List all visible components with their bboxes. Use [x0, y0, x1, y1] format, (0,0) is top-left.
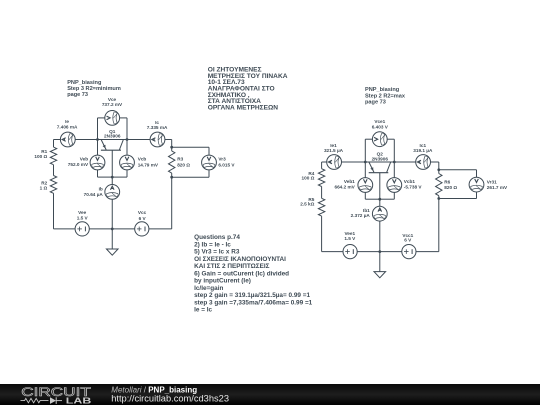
voltmeter Vce	[105, 111, 120, 126]
label Veb1	[334, 179, 355, 190]
svg-text:2) Ib = Ie - Ic: 2) Ib = Ie - Ic	[194, 241, 231, 248]
svg-text:step 2 gain = 319.1µa/321.5µa=: step 2 gain = 319.1µa/321.5µa= 0.99 =1	[194, 292, 310, 299]
ammeter Ie	[60, 132, 75, 147]
label Q1 2N3906	[104, 129, 121, 139]
wire Veb1 to base bus	[365, 198, 380, 200]
svg-text:6 V: 6 V	[139, 216, 147, 221]
wire Vcb1 to base bus	[380, 198, 395, 200]
svg-text:ΚΑΙ ΣΤΙΣ 2 ΠΕΡΙΠΤΩΣΕΙΣ: ΚΑΙ ΣΤΙΣ 2 ΠΕΡΙΠΤΩΣΕΙΣ	[194, 263, 270, 270]
wire Vcb bottom	[126, 170, 128, 177]
svg-text:2.372 µA: 2.372 µA	[351, 213, 371, 218]
node R6 top	[437, 168, 440, 171]
svg-text:Veb: Veb	[80, 156, 88, 161]
wire vr31 loop top	[439, 169, 477, 171]
label Vcb1	[404, 179, 423, 190]
wire vr31 loop bottom	[439, 198, 477, 200]
resistor R5	[318, 198, 324, 216]
wire vce1 loop right	[393, 139, 395, 162]
transistor Q1 2N3906	[101, 140, 124, 151]
svg-text:ΟΙ ΣΧΕΣΕΙΣ ΙΚΑΝΟΠΟΙΟΥΝΤΑΙ: ΟΙ ΣΧΕΣΕΙΣ ΙΚΑΝΟΠΟΙΟΥΝΤΑΙ	[194, 256, 286, 263]
svg-text:page 73: page 73	[67, 92, 88, 98]
wire bottom right segment	[149, 228, 172, 230]
label Veb	[68, 156, 89, 167]
wire R5 to bottom	[321, 216, 323, 252]
wire Vcb1 bottom	[393, 192, 395, 199]
svg-text:6) Gain = outCurent (Ic) divid: 6) Gain = outCurent (Ic) divided	[194, 270, 289, 277]
wire base lead right circuit	[379, 173, 381, 207]
node emitter junction right	[364, 161, 367, 164]
text header right circuit	[365, 87, 406, 106]
svg-text:6.403 V: 6.403 V	[372, 124, 389, 129]
wire corner down right	[438, 162, 440, 170]
wire bottom right segment right circuit	[416, 251, 439, 253]
node R6 bottom	[437, 197, 440, 200]
svg-text:5) Vr3 = Ic x R3: 5) Vr3 = Ic x R3	[194, 249, 240, 256]
wire vce1 loop top right	[387, 138, 394, 140]
ground left circuit	[106, 249, 118, 255]
svg-text:R6: R6	[444, 179, 450, 184]
svg-text:Ie1: Ie1	[330, 143, 337, 148]
voltage source Vcc	[135, 222, 149, 236]
svg-text:6 V: 6 V	[404, 238, 412, 243]
text note greek measurements	[208, 66, 288, 111]
logo diode arrow	[50, 397, 56, 404]
svg-text:Veb1: Veb1	[344, 179, 355, 184]
wire bottom to Vee	[54, 228, 75, 230]
wire bottom to Vee1	[322, 251, 343, 253]
label R4	[302, 171, 315, 181]
wire vr3 loop top	[172, 146, 209, 148]
wire vce1 loop top left	[365, 138, 372, 140]
svg-text:R3: R3	[177, 156, 183, 161]
ammeter Ib1	[372, 206, 387, 221]
svg-text:664.2 mV: 664.2 mV	[334, 185, 355, 190]
wire vce loop top right	[120, 117, 127, 119]
node ground junction right	[378, 250, 381, 253]
label Ib1	[351, 208, 371, 218]
node R3 bottom	[170, 176, 173, 179]
label R1	[34, 149, 47, 159]
label Vr31	[487, 179, 508, 190]
voltmeter Veb	[90, 155, 105, 170]
right circuit: PNP_biasing Step 2	[0, 0, 2, 2]
wire Ic to corner	[165, 139, 172, 141]
wire Veb bottom	[97, 170, 99, 177]
svg-text:Ic1: Ic1	[420, 143, 427, 148]
label Q2 2N3906	[372, 152, 389, 162]
wire vce loop right	[126, 118, 128, 140]
label R6	[444, 179, 457, 190]
wire vr31 to meter	[476, 170, 478, 177]
node collector junction	[126, 138, 129, 141]
wire Vcb to base bus	[112, 176, 127, 178]
voltmeter Vcb	[120, 155, 135, 170]
svg-text:1.5 V: 1.5 V	[77, 216, 89, 221]
ammeter Ie1	[327, 155, 342, 170]
wire base lead	[111, 150, 113, 184]
ammeter Ic1	[416, 155, 431, 170]
node base bus junction right	[378, 198, 381, 201]
ammeter Ib	[105, 185, 120, 200]
resistor R3	[169, 151, 175, 173]
svg-text:2N3906: 2N3906	[104, 134, 121, 139]
wire R3 top lead	[171, 147, 173, 151]
svg-text:321.5 µA: 321.5 µA	[324, 148, 344, 153]
node base bus junction	[111, 176, 114, 179]
label R3	[177, 156, 190, 167]
svg-text:Ie = Ic: Ie = Ic	[194, 307, 212, 314]
svg-text:752.0 mV: 752.0 mV	[68, 162, 89, 167]
wire left branch to Ie	[54, 139, 61, 141]
wire between Vee1 Vcc1	[357, 251, 401, 253]
label Ic1	[413, 143, 433, 153]
svg-text:820 Ω: 820 Ω	[444, 185, 457, 190]
voltmeter Veb1	[358, 178, 373, 193]
label Vce1	[372, 119, 389, 130]
node emitter junction	[96, 138, 99, 141]
svg-text:100 Ω: 100 Ω	[302, 176, 315, 181]
wire vr3 to meter	[208, 147, 210, 155]
voltmeter Vr31	[469, 177, 484, 192]
svg-text:LAB: LAB	[66, 395, 92, 405]
text questions block	[194, 234, 313, 313]
svg-text:2N3906: 2N3906	[372, 156, 389, 161]
resistor R4	[318, 169, 324, 187]
svg-text:14.79 mV: 14.79 mV	[138, 162, 159, 167]
label Vcc	[138, 210, 147, 221]
svg-text:PNP_biasing: PNP_biasing	[365, 87, 400, 93]
svg-text:100 Ω: 100 Ω	[34, 154, 47, 159]
wire vr31 meter bottom	[476, 192, 478, 199]
label Ie	[57, 119, 78, 130]
svg-text:http://circuitlab.com/cd3hs23: http://circuitlab.com/cd3hs23	[111, 394, 229, 404]
wire vce loop left	[97, 118, 99, 140]
wire R2 to bottom	[53, 193, 55, 229]
svg-text:2.5 kΩ: 2.5 kΩ	[300, 202, 314, 207]
label Vee1	[344, 231, 356, 241]
label Vcb	[138, 156, 159, 167]
resistor R1	[50, 147, 56, 165]
left circuit: PNP_biasing Step 3	[0, 0, 2, 2]
svg-text:Vr3: Vr3	[218, 156, 226, 161]
label Ib	[84, 186, 104, 197]
wire R6 branch to bottom	[438, 199, 440, 252]
wire vr3 meter bottom	[208, 170, 210, 177]
wire R6 bottom lead	[438, 196, 440, 199]
wire main horizontal right circuit	[342, 161, 416, 163]
label R2	[40, 180, 48, 190]
node R3 top	[170, 146, 173, 149]
svg-text:by inputCurent (Ie): by inputCurent (Ie)	[194, 278, 251, 285]
svg-text:Ib: Ib	[99, 186, 103, 191]
ground right circuit	[374, 272, 386, 278]
svg-text:Vcb1: Vcb1	[404, 179, 416, 184]
svg-text:Vcc: Vcc	[138, 210, 147, 215]
wire between R1 R2	[53, 165, 55, 176]
wire main horizontal emitter-collector	[75, 139, 150, 141]
svg-text:319.1 µA: 319.1 µA	[413, 148, 433, 153]
voltage source Vee	[75, 222, 89, 236]
wire between Vee Vcc	[90, 228, 135, 230]
svg-text:Ie: Ie	[65, 119, 69, 124]
svg-text:step 3 gain =7,335ma/7.406ma=: step 3 gain =7,335ma/7.406ma= 0.99 =1	[194, 299, 313, 306]
label Vce	[102, 97, 123, 107]
wire vr3 loop bottom	[172, 176, 209, 178]
wire Ic1 to corner	[431, 161, 439, 163]
wire to Vcb1	[393, 162, 395, 178]
svg-text:70.64 µA: 70.64 µA	[84, 192, 104, 197]
voltmeter Vr3	[202, 155, 217, 170]
svg-text:820 Ω: 820 Ω	[177, 162, 190, 167]
svg-text:Vcb: Vcb	[138, 156, 147, 161]
voltage source Vee1	[343, 245, 357, 259]
wire R3 bottom lead	[171, 173, 173, 177]
voltmeter Vcb1	[387, 178, 402, 193]
ammeter Ic	[150, 132, 165, 147]
wire left branch to Ie1	[322, 161, 327, 163]
svg-text:-5.738 V: -5.738 V	[404, 185, 423, 190]
label R5	[300, 197, 315, 207]
svg-text:1.5 V: 1.5 V	[344, 236, 356, 241]
wire left top vertical right circuit	[321, 162, 323, 169]
svg-text:6.015 V: 6.015 V	[218, 162, 235, 167]
label Vee	[77, 210, 89, 221]
wire Veb to base bus	[98, 176, 113, 178]
voltmeter Vce1	[372, 132, 387, 147]
svg-text:R2: R2	[41, 180, 47, 185]
text header left circuit	[67, 80, 121, 98]
svg-text:Questions p.74: Questions p.74	[194, 234, 240, 241]
svg-text:ΟΡΓΑΝΑ ΜΕΤΡΗΣΕΩΝ: ΟΡΓΑΝΑ ΜΕΤΡΗΣΕΩΝ	[208, 105, 279, 112]
footer bar	[0, 384, 540, 405]
svg-text:Ic/Ie=gain: Ic/Ie=gain	[194, 285, 223, 292]
wire to Veb	[97, 140, 99, 156]
wire R6 top lead	[438, 170, 440, 174]
svg-text:7.335 mA: 7.335 mA	[147, 125, 168, 130]
svg-text:Vce1: Vce1	[374, 119, 385, 124]
wire corner down	[171, 140, 173, 148]
wire vce loop top left	[98, 117, 105, 119]
label Vr3	[218, 156, 235, 167]
wire R3 branch to bottom	[171, 177, 173, 229]
wire left top vertical	[53, 140, 55, 148]
wire Ib1 to ground	[379, 221, 381, 272]
svg-text:Vr31: Vr31	[487, 179, 497, 184]
node ground junction	[111, 228, 114, 231]
wire to Veb1	[364, 162, 366, 178]
transistor Q2 2N3906	[369, 162, 391, 173]
voltage source Vcc1	[402, 245, 416, 259]
wire between R4 R5	[321, 187, 323, 199]
wire vce1 loop left	[364, 139, 366, 162]
svg-text:737.2 mV: 737.2 mV	[102, 102, 123, 107]
wire Ib to ground	[111, 199, 113, 249]
svg-text:261.7 mV: 261.7 mV	[487, 185, 508, 190]
node collector junction right	[393, 161, 396, 164]
label Ie1	[324, 143, 344, 153]
svg-text:7.406 mA: 7.406 mA	[57, 124, 78, 129]
label Vcc1	[402, 233, 413, 243]
svg-text:1 Ω: 1 Ω	[40, 186, 48, 191]
svg-text:Vee: Vee	[78, 210, 86, 215]
svg-text:page 73: page 73	[365, 100, 386, 106]
wire to Vcb	[126, 140, 128, 156]
resistor R6	[436, 174, 442, 196]
logo resistor zigzag	[21, 398, 49, 402]
svg-text:Step 2 R2=max: Step 2 R2=max	[365, 93, 406, 99]
label Ic	[147, 120, 168, 130]
wire Veb1 bottom	[364, 192, 366, 199]
resistor R2	[50, 176, 56, 194]
